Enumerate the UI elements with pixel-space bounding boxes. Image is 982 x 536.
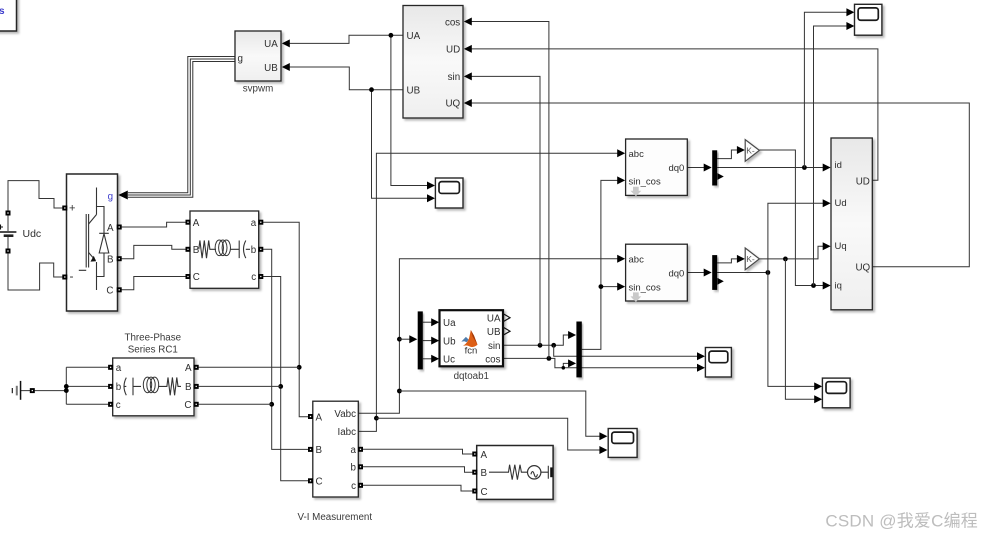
svg-text:UD: UD — [856, 176, 870, 187]
svg-text:CSDN @我爱C编程: CSDN @我爱C编程 — [825, 512, 978, 531]
svg-text:dqtoab1: dqtoab1 — [454, 371, 489, 382]
wire dqtoab1 cos output to mux and Scope2 in2 — [503, 358, 705, 371]
scope Scope2 (sin cos) — [705, 348, 731, 378]
svg-text:+: + — [69, 203, 75, 215]
wire Iabc branch to Scope4 in2 — [376, 418, 607, 454]
wire sin branch to Scope2 in1 — [554, 345, 705, 360]
svg-text:C: C — [106, 286, 113, 297]
svg-text:Udc: Udc — [23, 228, 42, 240]
svg-text:sin_cos: sin_cos — [629, 176, 661, 187]
block abc to dq0 transform 2 — [626, 244, 688, 302]
svg-text:sin_cos: sin_cos — [629, 282, 661, 293]
block abc to dq0 transform 1 — [626, 139, 688, 196]
svg-text:A: A — [316, 413, 323, 424]
svg-text:K-: K- — [746, 146, 755, 156]
svg-text:c: c — [116, 400, 121, 411]
block DC source Udc — [0, 215, 41, 249]
svg-text:sin: sin — [448, 72, 461, 83]
svg-text:UQ: UQ — [445, 99, 460, 110]
port squares lower RC block — [108, 365, 113, 370]
svg-text:Three-Phase: Three-Phase — [124, 333, 181, 344]
svg-text:C: C — [184, 400, 191, 411]
junction sin scope branch — [551, 343, 556, 348]
svg-text:abc: abc — [629, 255, 645, 266]
wire demux2 out1 to gain2 — [717, 255, 745, 263]
CLR icon inside lower RC block — [124, 377, 182, 395]
block svpwm — [235, 31, 281, 95]
svg-text:id: id — [835, 160, 842, 171]
wire RC2 B output — [196, 385, 281, 387]
R + AC source icon inside source block — [489, 465, 553, 480]
svg-text:sin: sin — [488, 341, 501, 352]
wire UA from transform block to svpwm — [282, 35, 403, 47]
svg-text:A: A — [193, 218, 200, 229]
wire demux1 out2 to id input — [717, 164, 831, 172]
junction RC1-a with RC2-A — [297, 365, 302, 370]
junction on UB wire — [369, 87, 374, 92]
svg-text:B: B — [107, 254, 114, 265]
junction cos riser — [547, 356, 552, 361]
gain1 -K- — [745, 140, 759, 162]
powergui block (clipped, Continuous) — [0, 0, 17, 31]
wire g bus svpwm to bridge gate (3-line vector) — [118, 57, 235, 200]
svg-text:UA: UA — [487, 314, 501, 325]
block three-phase source — [477, 446, 553, 500]
wire bridge A to RC1 A — [119, 222, 188, 227]
wire V-I b to source B — [361, 467, 475, 472]
scope Scope4 (Vabc Iabc) — [608, 429, 637, 458]
svg-text:Ua: Ua — [443, 318, 456, 329]
wire Iabc to dq0 block1 abc — [358, 149, 625, 431]
svg-text:C: C — [193, 272, 200, 283]
wire RC1 c down to V-I Measurement C — [261, 277, 311, 481]
block V-I Measurement — [297, 401, 372, 523]
junction RC1-c with RC2-B — [278, 384, 283, 389]
svg-text:dq0: dq0 — [668, 268, 684, 279]
port squares bridge — [62, 206, 67, 211]
svg-text:a: a — [116, 363, 122, 374]
svg-text:UB: UB — [407, 85, 421, 96]
wire node down to Scope3 in1 — [768, 273, 822, 391]
wire RC2 A output — [196, 366, 299, 368]
junction Vabc scope branch — [397, 389, 402, 394]
svg-text:K-: K- — [746, 254, 755, 264]
svg-text:b: b — [251, 245, 257, 256]
demux1 after dq0 block1 — [712, 150, 724, 185]
wire Udc minus to bridge minus — [8, 251, 65, 290]
svg-text:b: b — [116, 382, 122, 393]
wire demux1 out1 to gain1 — [717, 146, 745, 159]
svg-text:B: B — [316, 445, 323, 456]
svg-text:dq0: dq0 — [668, 163, 684, 174]
svg-text:g: g — [238, 54, 243, 65]
wire id branch up to Scope0 in1 — [804, 8, 854, 167]
wire bridge B to RC1 B — [119, 245, 188, 258]
svg-text:Ub: Ub — [443, 336, 456, 347]
svg-text:UA: UA — [264, 39, 278, 50]
wire dqtoab1 sin output to mux — [503, 331, 576, 345]
block dqtoab1 MATLAB function — [440, 310, 504, 382]
svg-text:-: - — [70, 269, 74, 283]
svg-text:Uq: Uq — [835, 241, 847, 252]
demux2 after dq0 block2 — [712, 255, 724, 290]
block Three-Phase Series RC (upper) — [190, 211, 259, 288]
svg-text:Uc: Uc — [443, 355, 455, 366]
wire RC1 a down to V-I Measurement A — [261, 222, 311, 417]
port squares V-I Measurement — [308, 414, 313, 419]
junction id scope branch — [802, 165, 807, 170]
wire V-I a to source A — [361, 449, 475, 454]
wire dq0 block2 output to demux2 — [687, 269, 711, 277]
svg-text:UD: UD — [446, 45, 460, 56]
svg-text:Ud: Ud — [835, 198, 847, 209]
svg-text:s: s — [0, 6, 5, 17]
svg-text:svpwm: svpwm — [243, 84, 273, 95]
svg-text:V-I Measurement: V-I Measurement — [297, 512, 372, 523]
svg-text:UQ: UQ — [855, 263, 870, 274]
svg-text:UB: UB — [487, 327, 501, 338]
scope Scope1 (UA UB) — [435, 178, 463, 208]
svg-text:UA: UA — [407, 31, 421, 42]
wire sin riser to transform block sin input — [464, 72, 540, 345]
ground symbol — [12, 381, 22, 400]
svg-text:a: a — [351, 445, 357, 456]
junction sin_cos branch — [599, 284, 604, 289]
svg-text:b: b — [351, 463, 357, 474]
junction sin riser — [538, 343, 543, 348]
port square ground — [30, 388, 35, 393]
svg-text:B: B — [481, 468, 488, 479]
wire UB from transform block to svpwm — [282, 63, 403, 90]
block UD-UQ to UA-UB transform (flipped subsystem) — [403, 6, 463, 119]
junction gain2 scope branch — [783, 257, 788, 262]
port squares source block — [472, 452, 477, 457]
wire demux2 out2 node — [717, 272, 768, 274]
wire bridge C to RC1 C — [119, 277, 188, 290]
port squares Udc — [6, 211, 11, 216]
junction iq scope branch — [811, 283, 816, 288]
wire UQ feedback to transform block — [464, 99, 970, 267]
dqtoab1 output chevrons UA UB — [504, 314, 511, 335]
wire Vabc branch to demux — [399, 335, 417, 343]
wire V-I c to source C — [361, 485, 475, 491]
svg-text:C: C — [316, 477, 323, 488]
wire Vabc branch to Scope4 in1 — [399, 391, 607, 440]
scope Scope3 — [822, 378, 850, 408]
wire gain2 output to Uq input — [759, 242, 831, 259]
svg-text:A: A — [481, 450, 488, 461]
junction Vabc demux branch — [397, 337, 402, 342]
gain2 -K- — [745, 248, 759, 270]
junction Iabc scope branch — [374, 416, 379, 421]
svg-text:C: C — [481, 487, 488, 498]
wire mux sin_cos output to dq0 blocks — [582, 176, 625, 349]
junction on UA wire — [389, 33, 394, 38]
svg-text:c: c — [251, 272, 256, 283]
svg-text:iq: iq — [835, 280, 842, 291]
wire UD feedback to transform block — [464, 45, 878, 180]
svg-text:UB: UB — [264, 63, 278, 74]
wire gain1 output down to iq input — [759, 150, 831, 290]
block current regulator UD UQ — [831, 138, 872, 310]
svg-text:abc: abc — [629, 149, 645, 160]
svg-text:Iabc: Iabc — [337, 427, 356, 438]
wire gain2 branch down to Scope3 in2 — [785, 259, 822, 403]
junction Ud node — [766, 270, 771, 275]
wire demux outputs to dqtoab1 Ua Ub Uc — [423, 318, 439, 363]
IGBT and diode icon inside bridge — [79, 188, 109, 291]
wire ground to RC2 inputs a b c — [21, 367, 111, 404]
junction ground node — [64, 388, 69, 393]
wire RC2 C output — [196, 403, 272, 405]
svg-text:Vabc: Vabc — [334, 409, 356, 420]
demux before dqtoab1 — [418, 311, 423, 369]
wire node up to Ud input — [768, 199, 831, 272]
svg-text:fcn: fcn — [465, 346, 478, 357]
scope Scope0 (id iq) — [855, 4, 882, 35]
RLC icon inside upper RC block — [199, 240, 250, 258]
svg-text:a: a — [251, 218, 257, 229]
svg-text:cos: cos — [485, 355, 500, 366]
block Three-Phase Series RC1 (lower) — [113, 333, 194, 416]
svg-text:Series RC1: Series RC1 — [128, 345, 178, 356]
svg-text:B: B — [185, 382, 192, 393]
MATLAB logo icon — [461, 330, 477, 347]
junction RC1-b with RC2-C — [269, 402, 274, 407]
svg-text:g: g — [108, 192, 113, 203]
svg-text:A: A — [185, 363, 192, 374]
wire Vabc to dq0 block2 abc — [358, 255, 625, 414]
wire RC1 b down to V-I Measurement B — [261, 249, 311, 449]
wire Udc plus to bridge plus — [8, 181, 65, 213]
wire iq branch up to Scope0 in2 — [814, 22, 855, 286]
svg-text:A: A — [107, 223, 114, 234]
wire cos riser to transform block cos input — [464, 18, 549, 359]
svg-text:c: c — [351, 481, 356, 492]
svg-text:cos: cos — [445, 17, 460, 28]
wire dq0 block1 output to demux1 — [687, 164, 711, 172]
port squares upper RC block — [186, 220, 191, 225]
wire UA branch to Scope1 in1 — [391, 35, 435, 189]
mux sin_cos — [576, 322, 581, 378]
block universal bridge (IGBT inverter) — [67, 174, 118, 311]
wire UB branch to Scope1 in2 — [372, 90, 436, 203]
